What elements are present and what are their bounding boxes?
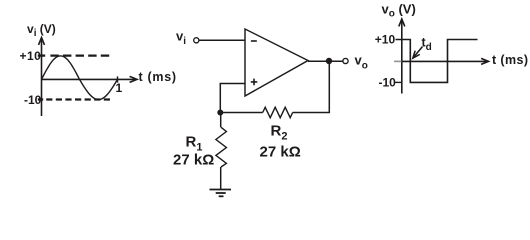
wire op-amp output to terminal: [308, 60, 343, 62]
resistor R1 zigzag: [216, 127, 227, 167]
terminal vi (open circle): [194, 38, 199, 43]
op-amp plus sign: [251, 79, 257, 86]
-10 tick and label (output): [395, 81, 403, 83]
-10 dashed level line: [46, 98, 112, 100]
sine wave vi: [42, 56, 118, 100]
input graph y-axis: [41, 39, 43, 116]
svg-text:-10: -10: [379, 76, 397, 90]
wire R1 to ground: [220, 167, 222, 190]
terminal vo (open circle): [343, 58, 348, 63]
1 ms tick and label: [117, 76, 119, 82]
node A junction dot: [217, 110, 223, 116]
-10 tick and label (input): [38, 98, 43, 100]
+10 dashed level line: [50, 54, 111, 56]
svg-text:t (ms): t (ms): [139, 70, 177, 84]
svg-text:-10: -10: [24, 93, 42, 107]
+10 tick and label (input): [38, 54, 45, 56]
wire noninverting input: [220, 84, 245, 113]
svg-text:27 kΩ: 27 kΩ: [260, 144, 301, 161]
output graph x-axis: [402, 60, 488, 62]
svg-text:R2: R2: [271, 123, 288, 143]
svg-text:1: 1: [116, 81, 123, 95]
output graph x-axis gray stub: [394, 60, 402, 62]
wire node A to R2: [220, 112, 263, 114]
wire node A to R1: [220, 113, 222, 128]
td delay arrow: [414, 47, 423, 58]
output graph y-axis: [401, 21, 403, 94]
svg-text:R1: R1: [186, 134, 203, 154]
svg-text:27 kΩ: 27 kΩ: [173, 152, 214, 169]
resistor R2 zigzag: [263, 107, 293, 117]
wire R2 to output rail: [293, 61, 330, 113]
op-amp minus sign: [251, 40, 257, 42]
svg-text:+10: +10: [375, 33, 396, 47]
input graph x-axis: [42, 78, 137, 80]
svg-text:vo (V): vo (V): [382, 2, 416, 20]
square wave vo: [396, 40, 478, 83]
ground symbol: [210, 189, 232, 191]
svg-text:vo: vo: [355, 53, 368, 72]
svg-text:+10: +10: [20, 49, 42, 63]
svg-text:td: td: [422, 36, 432, 54]
svg-text:vi: vi: [176, 29, 186, 48]
op-amp U1 triangle: [245, 29, 308, 96]
node B junction dot: [326, 58, 332, 64]
wire vi terminal to inverting input: [199, 39, 245, 41]
svg-text:t (ms): t (ms): [492, 53, 528, 67]
